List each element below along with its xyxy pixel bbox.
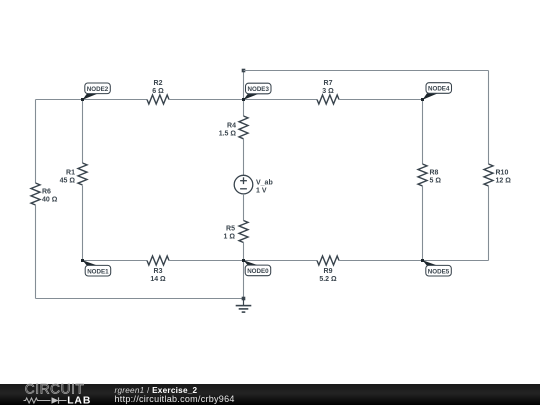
svg-text:NODE3: NODE3 (248, 86, 270, 93)
svg-text:12 Ω: 12 Ω (496, 178, 512, 185)
svg-text:V_ab: V_ab (256, 179, 273, 186)
wire top-right horizontal (244, 70, 489, 72)
svg-text:CIRCUIT: CIRCUIT (25, 382, 85, 397)
wire bottom-right horizontal (423, 260, 489, 262)
wire NODE4 branch upper segment (422, 100, 424, 165)
wire NODE4 branch lower segment (422, 186, 424, 261)
wire middle branch top segment (243, 100, 245, 117)
svg-text:3 Ω: 3 Ω (322, 88, 334, 95)
resistor R9 (317, 256, 339, 283)
wire bottom main horizontal right segment (339, 260, 423, 262)
node NODE0 (242, 259, 271, 276)
svg-text:NODE4: NODE4 (428, 86, 450, 93)
svg-text:R6: R6 (42, 189, 51, 196)
svg-text:NODE5: NODE5 (428, 268, 450, 275)
junction dot at ground row (242, 297, 246, 301)
wire top main horizontal middle segment (169, 99, 317, 101)
wire left edge upper segment (35, 100, 37, 184)
svg-text:1.5 Ω: 1.5 Ω (219, 130, 237, 137)
svg-text:R2: R2 (154, 80, 163, 87)
voltage source V_ab (234, 175, 273, 194)
resistor R1 (60, 163, 87, 185)
svg-text:1 Ω: 1 Ω (224, 234, 236, 241)
wire ground row horizontal (36, 298, 244, 300)
wire right edge upper segment (488, 71, 490, 165)
wire top main horizontal right segment (339, 99, 423, 101)
resistor R6 (31, 183, 58, 205)
footer bar (0, 384, 540, 405)
svg-text:R9: R9 (324, 268, 333, 275)
wire bottom main horizontal middle segment (169, 260, 317, 262)
svg-text:NODE0: NODE0 (247, 268, 269, 275)
node NODE2 (81, 83, 110, 101)
wire NODE2 branch upper segment (82, 100, 84, 164)
node NODE5 (421, 259, 451, 276)
wire NODE2 branch lower segment (82, 186, 84, 261)
svg-text:40 Ω: 40 Ω (42, 197, 58, 204)
resistor R5 (224, 221, 248, 243)
CircuitLab logo diode triangle (52, 397, 59, 403)
junction dot at top of NODE3 branch (242, 69, 246, 73)
svg-text:R7: R7 (324, 80, 333, 87)
svg-text:NODE1: NODE1 (87, 268, 109, 275)
ground (236, 299, 252, 313)
wire between R5 and NODE0 (243, 242, 245, 261)
wire between R4 and V_ab (243, 139, 245, 175)
svg-text:http://circuitlab.com/crby964: http://circuitlab.com/crby964 (115, 394, 235, 404)
wire NODE0 to ground row (243, 261, 245, 299)
svg-text:R3: R3 (154, 268, 163, 275)
svg-text:R1: R1 (66, 170, 75, 177)
svg-text:NODE2: NODE2 (87, 86, 109, 93)
resistor R10 (484, 164, 511, 186)
resistor R4 (219, 116, 248, 139)
wire right edge lower segment (488, 186, 490, 261)
svg-text:14 Ω: 14 Ω (150, 276, 166, 283)
wire left edge lower segment (35, 205, 37, 299)
resistor R7 (317, 80, 339, 104)
svg-text:5 Ω: 5 Ω (430, 178, 442, 185)
node NODE4 (421, 83, 452, 101)
svg-text:R8: R8 (430, 170, 439, 177)
svg-text:1 V: 1 V (256, 187, 267, 194)
svg-text:R5: R5 (226, 226, 235, 233)
svg-text:45 Ω: 45 Ω (60, 178, 76, 185)
node NODE3 (242, 83, 271, 101)
CircuitLab logo schematic glyph (24, 397, 67, 403)
wire between V_ab and R5 (243, 194, 245, 221)
resistor R3 (147, 256, 169, 283)
wire from NODE3 up to top-right loop (243, 71, 245, 100)
wire top main horizontal left segment (36, 99, 148, 101)
svg-text:R10: R10 (496, 170, 509, 177)
svg-text:6 Ω: 6 Ω (152, 88, 164, 95)
node NODE1 (81, 259, 111, 276)
wire bottom main horizontal left segment (83, 260, 148, 262)
resistor R2 (147, 80, 169, 104)
svg-text:LAB: LAB (67, 395, 91, 405)
resistor R8 (418, 164, 441, 186)
svg-text:5.2 Ω: 5.2 Ω (319, 276, 337, 283)
svg-text:R4: R4 (227, 122, 236, 129)
